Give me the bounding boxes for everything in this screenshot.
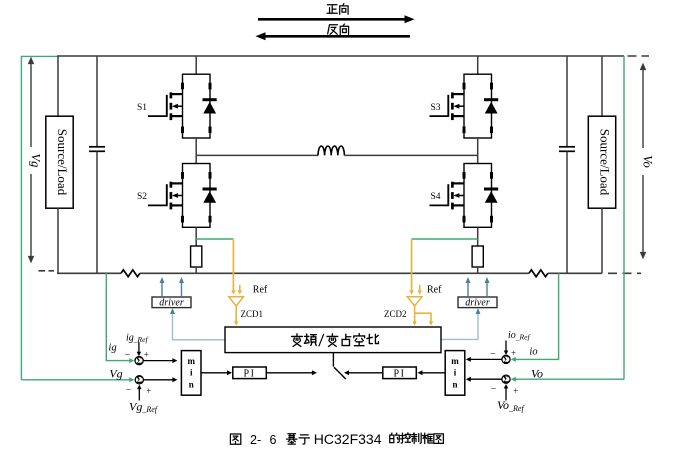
wire right capacitor bottom leg: [566, 151, 568, 273]
min block right: [445, 351, 465, 396]
wire Σ1 to min: [143, 358, 177, 363]
wire left source top leg: [57, 56, 59, 116]
comparator ZCD1: [229, 297, 244, 306]
wire PI left to switch: [266, 370, 317, 375]
svg-text:−: −: [126, 384, 132, 395]
svg-text:Vg: Vg: [109, 367, 122, 381]
source/load block right: [588, 116, 615, 208]
svg-text:+: +: [146, 386, 151, 396]
transistor S3: [430, 74, 499, 138]
controller block 变频/变占空比: [225, 327, 441, 353]
svg-text:Source/Load: Source/Load: [55, 129, 70, 196]
resistor R1: [191, 246, 202, 267]
resistor R2: [472, 246, 483, 267]
wire bottom rail right segment: [548, 272, 602, 274]
svg-text:ig: ig: [108, 343, 116, 354]
svg-text:io_Ref: io_Ref: [508, 330, 530, 342]
svg-text:6: 6: [270, 433, 277, 447]
wire ZCD2 input (yellow): [409, 239, 414, 295]
svg-text:ZCD1: ZCD1: [241, 309, 264, 319]
svg-text:m: m: [187, 356, 195, 366]
svg-text:m: m: [451, 356, 459, 366]
svg-text:Ref: Ref: [253, 285, 268, 296]
svg-text:2-: 2-: [250, 433, 261, 447]
wire ZCD2 output (yellow): [412, 306, 433, 326]
wire Vg sense green bracket: [21, 56, 57, 379]
svg-text:Source/Load: Source/Load: [598, 129, 613, 196]
arrow io_Ref into Σ3: [504, 341, 509, 356]
wire controller to driver2: [441, 308, 481, 339]
wire ig feedback (green): [106, 273, 134, 363]
wire Vg feedback (green): [21, 377, 134, 382]
transistor S2: [148, 164, 217, 228]
svg-text:n: n: [452, 380, 457, 390]
inductor L1: [318, 146, 344, 155]
wire R1 to rail: [195, 267, 197, 273]
summer Σ3 (io): [502, 355, 510, 365]
wire right capacitor top leg: [566, 56, 568, 147]
min block left: [181, 351, 201, 396]
svg-text:+: +: [513, 386, 518, 396]
svg-text:Vo: Vo: [531, 367, 543, 381]
svg-text:+: +: [511, 348, 516, 358]
svg-text:Σ: Σ: [503, 375, 509, 385]
driver block right: [458, 297, 497, 309]
driver block left: [152, 297, 191, 309]
wire Vo feedback (green): [511, 377, 624, 382]
arrow Vo_Ref into Σ4: [504, 384, 509, 401]
svg-text:Vg: Vg: [29, 154, 43, 168]
wire bottom rail middle segment: [140, 272, 529, 274]
svg-text:S2: S2: [137, 192, 147, 202]
wire ZCD1 input (yellow): [231, 239, 236, 295]
wire ZCD1 current tap (green): [196, 238, 233, 240]
svg-text:S4: S4: [430, 192, 440, 202]
svg-text:Ref: Ref: [427, 285, 442, 296]
sense resistor Rs1: [121, 270, 140, 277]
wire S3-S4 midpoint link: [477, 138, 479, 164]
measurement arrow Vo: [637, 63, 655, 260]
caption 图 2-6 基于 HC32F334 的控制框图: [230, 431, 443, 447]
wire right source bottom leg: [601, 208, 603, 273]
wire S3 drain pin: [477, 56, 479, 74]
svg-text:Σ: Σ: [503, 355, 509, 365]
PI controller right: [383, 367, 417, 379]
wire bottom rail left segment: [57, 272, 121, 274]
svg-text:HC32F334: HC32F334: [314, 431, 382, 447]
wire PI right to switch: [344, 370, 383, 375]
svg-text:S3: S3: [430, 103, 440, 113]
svg-text:driver: driver: [159, 298, 184, 309]
wire S1-S2 midpoint link: [195, 138, 197, 164]
source/load block left: [46, 116, 73, 208]
svg-text:−: −: [490, 349, 496, 360]
svg-text:S1: S1: [137, 103, 147, 113]
svg-text:PI: PI: [244, 368, 256, 379]
wire ZCD2 current tap (green): [412, 238, 478, 240]
measurement arrow Vg: [25, 57, 43, 264]
reference arrow Ref right: [418, 285, 423, 295]
reference arrow Ref left: [238, 285, 243, 295]
capacitor C2: [559, 147, 575, 152]
label 正向 (forward): [327, 4, 348, 15]
wire inductor right lead: [344, 154, 477, 156]
wire Σ3 to min: [466, 357, 502, 362]
sense resistor Rs2: [529, 270, 548, 277]
svg-text:−: −: [491, 383, 497, 394]
wire left capacitor bottom leg: [96, 151, 98, 273]
transistor S1: [148, 74, 217, 138]
wire ZCD1 output (yellow): [234, 306, 239, 326]
wire top rail: [57, 55, 624, 57]
wire Σ4 to min: [466, 377, 502, 382]
wire min to PI right: [418, 370, 446, 375]
summer Σ2 (Vg): [135, 375, 143, 385]
svg-text:PI: PI: [394, 368, 406, 379]
wire S4 source pin: [477, 227, 479, 246]
svg-text:Σ: Σ: [136, 375, 142, 385]
capacitor C1: [89, 147, 105, 152]
PI controller left: [233, 367, 266, 379]
wire inductor left lead: [196, 154, 318, 156]
svg-text:+: +: [144, 349, 149, 359]
wire Σ2 to min: [144, 377, 178, 382]
wire S2 source pin: [195, 227, 197, 246]
summer Σ1 (ig): [135, 356, 143, 366]
wire top-right dashed stub: [628, 55, 650, 57]
wire S1 drain pin: [195, 56, 197, 74]
comparator ZCD2: [407, 297, 422, 306]
svg-text:ig_Ref: ig_Ref: [126, 333, 148, 345]
summer Σ4 (Vo): [502, 375, 510, 385]
svg-text:Σ: Σ: [136, 356, 142, 366]
svg-text:−: −: [125, 350, 131, 361]
arrow ig_Ref into Σ1: [137, 342, 142, 356]
svg-text:ZCD2: ZCD2: [384, 309, 407, 319]
wire driver2 gate drive arrows: [466, 277, 490, 297]
svg-text:n: n: [189, 380, 194, 390]
wire bottom-right dashed stub: [608, 272, 641, 274]
svg-text:Vo: Vo: [641, 155, 655, 168]
wire left source bottom leg: [57, 208, 59, 273]
svg-text:io: io: [529, 346, 537, 357]
wire R2 to rail: [477, 267, 479, 273]
wire controller to driver1: [170, 308, 225, 340]
wire Vo sense green line: [623, 56, 625, 379]
switch SW1: [333, 353, 345, 379]
reverse direction arrow: [256, 32, 411, 40]
transistor S4: [430, 164, 499, 228]
arrow Vg_Ref into Σ2: [137, 385, 142, 401]
wire min to PI left: [201, 370, 232, 375]
wire driver1 gate drive arrows: [160, 277, 185, 297]
label 反向 (reverse): [328, 24, 349, 35]
svg-text:driver: driver: [465, 298, 490, 309]
wire bottom-left dashed stub: [39, 270, 55, 272]
forward direction arrow: [258, 15, 415, 23]
wire right source top leg: [601, 56, 603, 116]
wire io feedback (green): [511, 273, 559, 362]
wire left capacitor top leg: [96, 56, 98, 147]
